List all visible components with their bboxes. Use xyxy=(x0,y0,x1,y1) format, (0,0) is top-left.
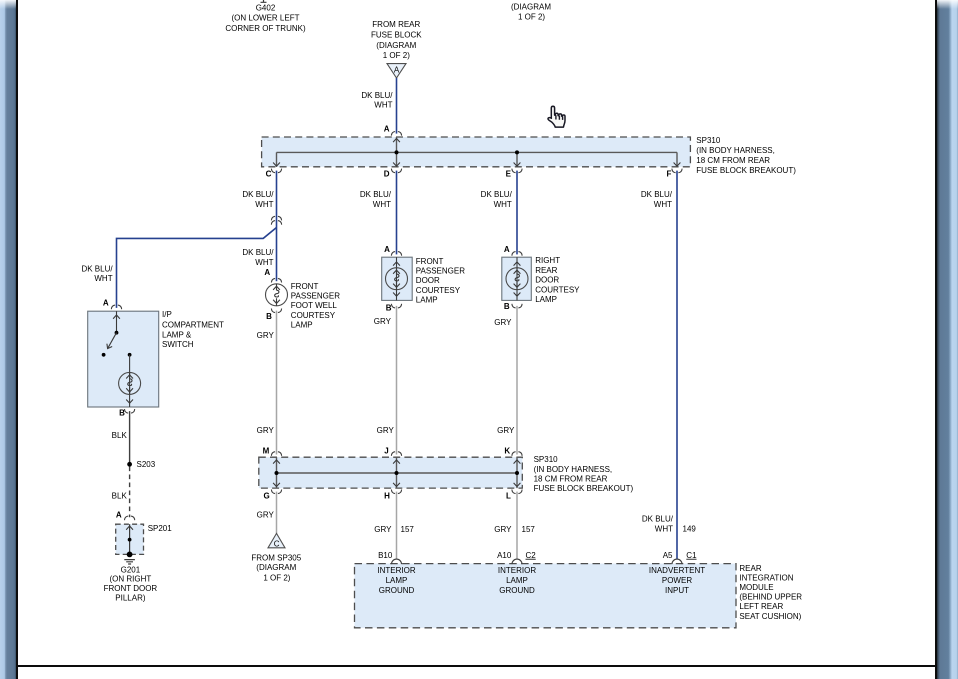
svg-text:C1: C1 xyxy=(686,551,697,560)
svg-text:A: A xyxy=(103,299,109,308)
svg-text:FUSE BLOCK BREAKOUT): FUSE BLOCK BREAKOUT) xyxy=(696,166,796,175)
svg-text:FRONT: FRONT xyxy=(416,257,444,266)
svg-text:FUSE BLOCK BREAKOUT): FUSE BLOCK BREAKOUT) xyxy=(534,484,634,493)
splice pack SP310 (lower) box xyxy=(259,457,523,488)
right window chrome strip xyxy=(937,0,958,679)
svg-text:LAMP: LAMP xyxy=(506,576,528,585)
svg-text:MODULE: MODULE xyxy=(739,583,773,592)
svg-text:FRONT: FRONT xyxy=(291,282,319,291)
svg-text:GRY: GRY xyxy=(374,317,392,326)
svg-text:A: A xyxy=(264,268,270,277)
arrows lower SP310 xyxy=(273,460,280,464)
label G201 xyxy=(104,565,158,602)
svg-text:GRY: GRY xyxy=(257,426,275,435)
page border lines xyxy=(16,0,18,679)
svg-text:FOOT WELL: FOOT WELL xyxy=(291,301,338,310)
connector arcs lower SP310 xyxy=(271,452,281,456)
svg-text:DOOR: DOOR xyxy=(535,276,559,285)
svg-text:LEFT REAR: LEFT REAR xyxy=(739,602,783,611)
svg-text:LAMP &: LAMP & xyxy=(162,330,192,339)
svg-text:SP310: SP310 xyxy=(534,455,559,464)
wire GRY: L to module xyxy=(516,492,518,560)
svg-text:157: 157 xyxy=(401,525,415,534)
wire F: SP310 to rear integration module xyxy=(676,171,678,560)
wire GRY: G to triangle C xyxy=(276,492,278,534)
svg-text:INTERIOR: INTERIOR xyxy=(498,566,536,575)
connector bumps on module xyxy=(392,559,402,564)
svg-text:B: B xyxy=(386,304,392,313)
junction dots lower SP310 xyxy=(275,471,279,475)
svg-text:1 OF 2): 1 OF 2) xyxy=(518,13,545,22)
svg-text:DOOR: DOOR xyxy=(416,276,440,285)
svg-text:PASSENGER: PASSENGER xyxy=(416,267,465,276)
svg-text:K: K xyxy=(504,446,510,455)
svg-text:157: 157 xyxy=(522,525,536,534)
svg-text:WHT: WHT xyxy=(655,524,673,533)
in-line splice double arc on wire C xyxy=(271,216,281,220)
svg-text:GRY: GRY xyxy=(257,331,275,340)
svg-text:DK BLU/: DK BLU/ xyxy=(642,514,674,523)
svg-text:C2: C2 xyxy=(526,551,537,560)
wire GRY: H to module xyxy=(396,492,398,560)
svg-text:(ON LOWER LEFT: (ON LOWER LEFT xyxy=(231,14,299,23)
svg-text:B: B xyxy=(504,302,510,311)
connector arcs upper SP310 xyxy=(391,132,401,136)
front passenger foot well courtesy lamp xyxy=(264,268,340,329)
svg-text:PILLAR): PILLAR) xyxy=(115,593,146,602)
label FROM SP305 xyxy=(251,554,301,583)
svg-text:INTEGRATION: INTEGRATION xyxy=(739,573,793,582)
svg-text:FROM REAR: FROM REAR xyxy=(372,20,420,29)
junction dot D xyxy=(395,150,399,154)
svg-text:1 OF 2): 1 OF 2) xyxy=(263,573,290,582)
svg-text:149: 149 xyxy=(683,524,697,533)
svg-text:F: F xyxy=(667,170,672,179)
label SP310 upper xyxy=(696,136,796,175)
label FROM REAR FUSE BLOCK xyxy=(371,20,422,60)
svg-text:E: E xyxy=(506,170,512,179)
svg-text:1 OF 2): 1 OF 2) xyxy=(383,51,410,60)
wire D: SP310 to front passenger door lamp xyxy=(396,171,398,255)
wire E: SP310 to right rear door lamp xyxy=(516,171,518,255)
svg-text:DK BLU/: DK BLU/ xyxy=(242,248,274,257)
svg-text:(DIAGRAM: (DIAGRAM xyxy=(511,2,551,11)
wire branch to I/P lamp xyxy=(117,228,277,308)
dashed wire BLK: S203 to SP201 xyxy=(129,467,131,518)
rear integration module box xyxy=(355,564,737,628)
bus wire inside lower SP310 xyxy=(277,457,518,488)
svg-text:PASSENGER: PASSENGER xyxy=(291,292,340,301)
svg-text:POWER: POWER xyxy=(662,576,692,585)
svg-text:DK BLU/: DK BLU/ xyxy=(360,190,392,199)
arrows upper SP310 xyxy=(393,138,400,142)
svg-text:J: J xyxy=(384,446,388,455)
wire GRY: foot well lamp B to SP310 lower M xyxy=(276,311,278,455)
front passenger door courtesy lamp xyxy=(382,245,466,313)
svg-text:BLK: BLK xyxy=(112,431,128,440)
svg-text:18 CM FROM REAR: 18 CM FROM REAR xyxy=(534,474,608,483)
svg-text:D: D xyxy=(384,170,390,179)
svg-text:GRY: GRY xyxy=(494,318,512,327)
lamp inside I/P box xyxy=(128,353,132,357)
svg-text:GRY: GRY xyxy=(374,525,392,534)
wire C: SP310 to splice/branch (dk blu/wht) xyxy=(276,171,278,282)
label DK BLU/WHT below branch on C xyxy=(242,248,274,267)
splice pack SP201 xyxy=(116,511,173,558)
svg-text:B10: B10 xyxy=(378,551,393,560)
svg-text:L: L xyxy=(506,491,511,500)
svg-text:G201: G201 xyxy=(121,565,141,574)
svg-text:FROM SP305: FROM SP305 xyxy=(251,554,301,563)
svg-text:WHT: WHT xyxy=(374,100,392,109)
connector triangle C to SP305 xyxy=(268,533,285,548)
svg-text:FUSE BLOCK: FUSE BLOCK xyxy=(371,30,422,39)
svg-text:WHT: WHT xyxy=(94,274,112,283)
svg-text:SP310: SP310 xyxy=(696,136,721,145)
ground G201 symbol xyxy=(124,560,135,564)
switch contact xyxy=(115,331,119,335)
svg-text:SWITCH: SWITCH xyxy=(162,340,194,349)
module pin functions xyxy=(377,566,705,595)
mouse cursor xyxy=(548,106,565,127)
junction dot E xyxy=(515,150,519,154)
label SP310 lower xyxy=(534,455,634,493)
svg-text:DK BLU/: DK BLU/ xyxy=(361,91,393,100)
bus wire inside upper SP310 xyxy=(277,137,678,167)
label DK BLU/WHT on I/P branch xyxy=(81,265,113,284)
svg-text:WHT: WHT xyxy=(373,200,391,209)
svg-text:C: C xyxy=(274,540,280,549)
svg-text:INADVERTENT: INADVERTENT xyxy=(649,566,705,575)
wire GRY: door lamp B to SP310 lower J xyxy=(396,306,398,455)
svg-text:WHT: WHT xyxy=(654,200,672,209)
svg-text:(IN BODY HARNESS,: (IN BODY HARNESS, xyxy=(696,146,775,155)
svg-text:FRONT DOOR: FRONT DOOR xyxy=(104,584,158,593)
svg-text:A: A xyxy=(394,65,400,74)
svg-text:B: B xyxy=(119,409,125,418)
labels DK BLU/WHT row under SP310 xyxy=(242,190,672,209)
svg-text:A5: A5 xyxy=(663,551,673,560)
svg-text:H: H xyxy=(384,491,390,500)
ground G402 stub (cut off at top) xyxy=(261,0,267,2)
svg-text:LAMP: LAMP xyxy=(291,320,313,329)
I/P compartment lamp & switch xyxy=(88,299,224,418)
svg-text:A: A xyxy=(116,511,122,520)
splice pack SP310 (upper) box xyxy=(262,137,691,167)
wire A: triangle to splice pack SP310 (dk blu/wht) xyxy=(396,78,398,134)
svg-text:18 CM FROM REAR: 18 CM FROM REAR xyxy=(696,156,770,165)
svg-text:COURTESY: COURTESY xyxy=(291,311,336,320)
svg-text:G402: G402 xyxy=(256,3,276,12)
svg-text:WHT: WHT xyxy=(255,258,273,267)
svg-text:CORNER OF TRUNK): CORNER OF TRUNK) xyxy=(225,24,306,33)
svg-text:LAMP: LAMP xyxy=(535,295,557,304)
svg-text:LAMP: LAMP xyxy=(386,576,408,585)
label G402 xyxy=(225,3,306,33)
svg-text:M: M xyxy=(263,446,270,455)
svg-text:BLK: BLK xyxy=(112,492,128,501)
svg-text:(BEHIND UPPER: (BEHIND UPPER xyxy=(739,593,802,602)
svg-text:A: A xyxy=(504,245,510,254)
svg-text:DK BLU/: DK BLU/ xyxy=(81,265,113,274)
svg-text:(DIAGRAM: (DIAGRAM xyxy=(376,41,416,50)
svg-text:LAMP: LAMP xyxy=(416,295,438,304)
svg-text:GRY: GRY xyxy=(494,525,512,534)
svg-text:GRY: GRY xyxy=(377,426,395,435)
svg-text:(ON RIGHT: (ON RIGHT xyxy=(110,575,152,584)
svg-text:I/P: I/P xyxy=(162,310,172,319)
label (DIAGRAM 1 OF 2) top center xyxy=(511,2,551,21)
svg-text:INPUT: INPUT xyxy=(665,586,689,595)
svg-text:(DIAGRAM: (DIAGRAM xyxy=(256,563,296,572)
svg-text:S203: S203 xyxy=(137,460,156,469)
svg-text:REAR: REAR xyxy=(535,266,557,275)
svg-text:G: G xyxy=(263,491,269,500)
svg-text:COURTESY: COURTESY xyxy=(416,286,461,295)
right rear door courtesy lamp xyxy=(502,245,580,311)
svg-text:REAR: REAR xyxy=(739,564,761,573)
wire GRY: rear door lamp B to SP310 lower K xyxy=(516,306,518,455)
svg-text:COURTESY: COURTESY xyxy=(535,285,580,294)
svg-text:WHT: WHT xyxy=(494,200,512,209)
svg-text:SP201: SP201 xyxy=(148,524,173,533)
svg-text:A: A xyxy=(384,124,390,133)
svg-text:C: C xyxy=(266,170,272,179)
svg-text:WHT: WHT xyxy=(255,200,273,209)
svg-text:SEAT CUSHION): SEAT CUSHION) xyxy=(739,612,801,621)
svg-text:DK BLU/: DK BLU/ xyxy=(242,190,274,199)
left window chrome strip xyxy=(0,0,16,679)
svg-text:INTERIOR: INTERIOR xyxy=(377,566,415,575)
svg-text:A10: A10 xyxy=(497,551,512,560)
connector triangle A from rear fuse block xyxy=(387,64,406,78)
svg-text:GROUND: GROUND xyxy=(379,586,415,595)
svg-text:COMPARTMENT: COMPARTMENT xyxy=(162,320,224,329)
svg-text:DK BLU/: DK BLU/ xyxy=(641,190,673,199)
splice S203 xyxy=(127,462,132,467)
label rear integration module xyxy=(739,564,802,621)
svg-text:A: A xyxy=(384,245,390,254)
svg-text:(IN BODY HARNESS,: (IN BODY HARNESS, xyxy=(534,465,613,474)
svg-text:DK BLU/: DK BLU/ xyxy=(481,190,513,199)
svg-text:GROUND: GROUND xyxy=(499,586,535,595)
svg-text:B: B xyxy=(266,312,272,321)
wire BLK: I/P lamp B to S203 xyxy=(129,411,131,462)
svg-text:GRY: GRY xyxy=(257,511,275,520)
label DK BLU/WHT (top feed) xyxy=(361,91,393,110)
svg-text:RIGHT: RIGHT xyxy=(535,256,560,265)
svg-text:GRY: GRY xyxy=(497,426,515,435)
